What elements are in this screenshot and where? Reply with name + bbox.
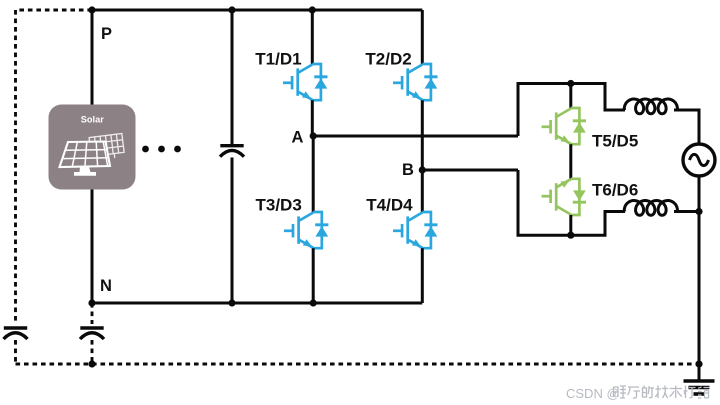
wire T3 leg upper xyxy=(312,136,315,212)
transistor T5/D5 xyxy=(542,108,587,144)
wire cap leg top xyxy=(231,10,234,145)
wire B riser to freewheel bottom rail xyxy=(518,170,625,235)
wire T2 leg upper xyxy=(421,10,424,64)
solar panel icon (rear panel) xyxy=(89,133,125,160)
svg-text:T4/D4: T4/D4 xyxy=(366,196,413,215)
junction dot top-left P xyxy=(88,6,95,13)
wire freewheel leg to T5 xyxy=(569,84,572,109)
wire L1 to grid xyxy=(674,110,699,144)
wire N rail xyxy=(92,302,422,305)
junction dot top T1 leg xyxy=(309,6,316,13)
transistor T1/D1 xyxy=(283,64,328,100)
wire grid to ground xyxy=(698,176,701,380)
junction dot grid bottom xyxy=(695,208,702,215)
wire A riser to freewheel top xyxy=(518,84,625,137)
wire T6 to freewheel bottom xyxy=(569,215,572,235)
svg-text:A: A xyxy=(292,129,304,147)
node B dot xyxy=(419,166,426,173)
inductor L2 (bottom filter) xyxy=(624,201,677,216)
transistor T3/D3 xyxy=(284,212,329,248)
capacitor Cpv1 (left parasitic cap) xyxy=(4,328,28,339)
transistor T4/D4 xyxy=(393,212,438,248)
svg-text:CSDN @: CSDN @ xyxy=(566,386,620,401)
capacitor Cdc (dc link) xyxy=(220,146,244,157)
wire T1 to A xyxy=(311,100,314,136)
solar panel icon pedestal xyxy=(74,167,96,176)
junction dot N left xyxy=(88,299,95,306)
junction dot N cap leg xyxy=(228,299,235,306)
dashed parasitic loop: top segment xyxy=(16,9,93,12)
junction dot freewheel bottom xyxy=(567,232,574,239)
svg-text:Solar: Solar xyxy=(81,115,104,125)
wire top rail P xyxy=(92,9,422,12)
svg-text:B: B xyxy=(402,161,414,179)
wire B rail xyxy=(422,169,518,172)
watermark CJK glyphs xyxy=(614,386,710,399)
svg-text:T3/D3: T3/D3 xyxy=(256,196,302,215)
solar source box xyxy=(49,105,136,190)
svg-text:T6/D6: T6/D6 xyxy=(592,180,638,199)
wire cap leg bottom xyxy=(231,158,234,304)
node A dot xyxy=(310,132,317,139)
junction dot dashed rail right xyxy=(695,360,702,367)
wire T1 leg upper xyxy=(311,10,314,64)
dashed bottom ground rail xyxy=(16,363,700,366)
wire T3 to N xyxy=(312,248,315,303)
wire T2 to B xyxy=(421,100,424,170)
wire T4 to N corner xyxy=(421,248,424,303)
junction dot dashed rail below N xyxy=(88,360,95,367)
dashed wire below Cpv2 xyxy=(91,340,94,364)
solar panel icon (front panel) xyxy=(60,142,111,168)
wire solar leg xyxy=(91,10,94,303)
wire L2 to grid junction xyxy=(674,210,699,213)
junction dot freewheel top xyxy=(567,80,574,87)
wire T5 to T6 xyxy=(569,144,572,179)
junction dot N T3 leg xyxy=(310,299,317,306)
dashed parasitic loop: left segment xyxy=(14,10,17,324)
wire T4 leg upper xyxy=(421,170,424,212)
transistor T6/D6 xyxy=(542,179,587,215)
dc bus dots xyxy=(142,146,181,153)
dashed wire below Cpv1 xyxy=(14,340,17,364)
svg-text:N: N xyxy=(100,277,112,295)
inductor L1 (top filter) xyxy=(624,99,677,114)
ac source Vgrid xyxy=(683,144,715,176)
transistor T2/D2 xyxy=(393,64,438,100)
svg-text:T1/D1: T1/D1 xyxy=(255,50,301,69)
wire A rail xyxy=(313,135,518,138)
svg-text:T2/D2: T2/D2 xyxy=(365,50,411,69)
ac source sine xyxy=(690,154,709,165)
dashed wire N to Cpv2 xyxy=(91,303,94,324)
capacitor Cpv2 (parasitic cap under N) xyxy=(80,328,104,339)
svg-text:P: P xyxy=(101,25,112,43)
svg-text:T5/D5: T5/D5 xyxy=(592,131,638,150)
ground symbol xyxy=(684,381,715,394)
junction dot top cap leg xyxy=(228,6,235,13)
